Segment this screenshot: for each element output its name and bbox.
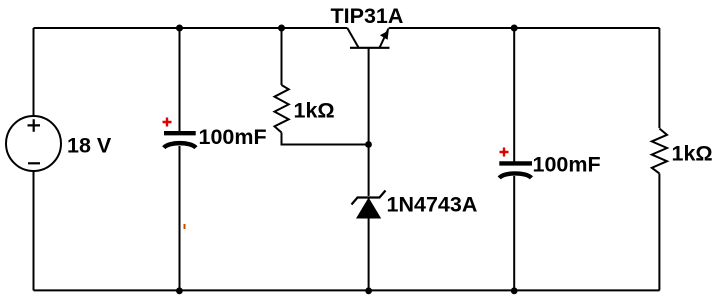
- capacitor C1 top plate: [164, 131, 196, 135]
- voltage source plus sign: [28, 119, 41, 131]
- wire capacitor C2 branch upper: [513, 28, 515, 163]
- wire left edge top (source to top rail): [33, 28, 35, 115]
- capacitor C2 plus polarity mark: [500, 148, 509, 157]
- red artifact tick below C1: [184, 224, 186, 229]
- wire resistor R1 lower to base node: [282, 133, 369, 145]
- transistor Q1 emitter arrow: [380, 31, 389, 40]
- junction dot bottom rail at C1: [176, 287, 183, 294]
- svg-text:TIP31A: TIP31A: [331, 4, 404, 28]
- junction dot top rail at C2: [511, 25, 518, 32]
- wire base line down to zener: [368, 48, 370, 196]
- capacitor C2 top plate: [499, 161, 532, 165]
- junction dot R1/base node: [365, 141, 372, 148]
- svg-text:100mF: 100mF: [199, 125, 267, 149]
- resistor R1 zigzag: [275, 85, 289, 133]
- junction dot top rail at R1: [278, 25, 285, 32]
- wire capacitor C2 branch lower: [513, 176, 515, 290]
- transistor Q1 emitter diagonal: [380, 29, 389, 48]
- wire right edge lower: [658, 174, 660, 291]
- voltage source V1 circle: [6, 116, 61, 171]
- zener diode D1 cathode bar with bent ends: [352, 191, 386, 205]
- wire zener to bottom rail: [368, 219, 370, 291]
- junction dot bottom rail at zener: [365, 287, 372, 294]
- junction dot bottom rail at C2: [511, 287, 518, 294]
- capacitor C1 curved bottom plate: [164, 143, 196, 148]
- capacitor C1 plus polarity mark: [163, 118, 172, 127]
- transistor Q1 collector diagonal: [347, 28, 358, 48]
- svg-text:1N4743A: 1N4743A: [387, 192, 478, 216]
- wire bottom rail: [34, 289, 660, 291]
- svg-text:1kΩ: 1kΩ: [672, 141, 713, 165]
- voltage source minus sign: [28, 162, 40, 164]
- wire right edge upper: [658, 28, 660, 128]
- junction dot top rail at C1: [176, 25, 183, 32]
- svg-text:1kΩ: 1kΩ: [294, 99, 335, 123]
- wire left edge bottom (source to bottom rail): [33, 171, 35, 290]
- resistor R2 zigzag: [652, 129, 667, 174]
- zener diode D1 triangle: [356, 198, 381, 219]
- transistor Q1 base bar: [350, 47, 390, 49]
- wire capacitor C1 branch lower: [179, 146, 181, 290]
- wire capacitor C1 branch upper: [179, 28, 181, 132]
- wire top rail right (emitter side): [389, 27, 660, 29]
- wire resistor R1 branch upper: [281, 28, 283, 85]
- svg-text:100mF: 100mF: [533, 152, 601, 176]
- wire top rail left (collector side): [34, 27, 348, 29]
- capacitor C2 curved bottom plate: [499, 173, 531, 178]
- svg-text:18 V: 18 V: [67, 133, 112, 157]
